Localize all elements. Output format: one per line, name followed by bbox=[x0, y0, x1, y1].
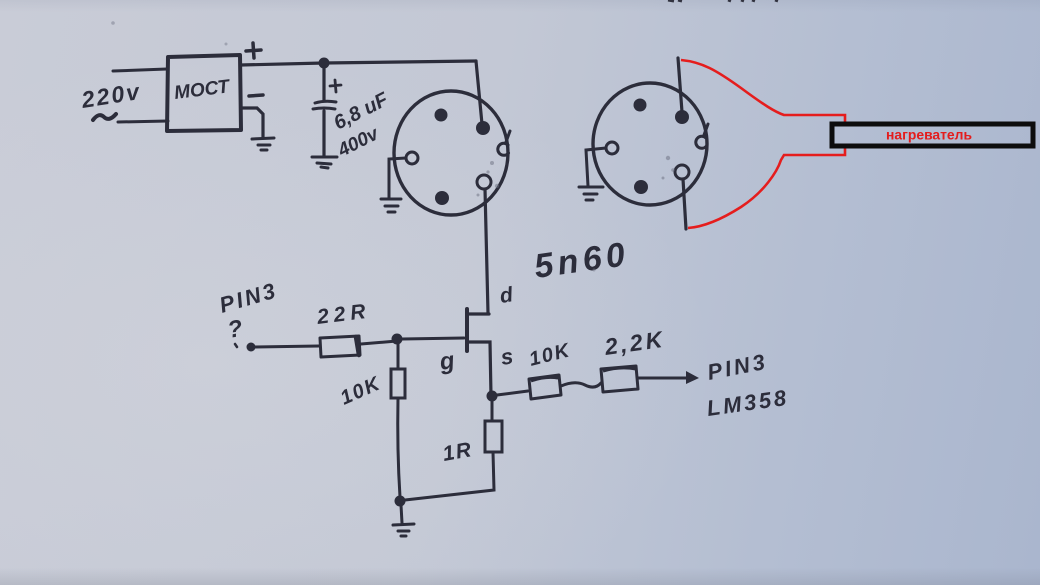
label PIN3 (input) bbox=[216, 277, 280, 317]
top edge stray marks bbox=[668, 0, 778, 1]
node: bus junction at capacitor bbox=[319, 58, 330, 69]
node: input terminal dot bbox=[247, 343, 256, 352]
wire: input to 22R bbox=[255, 346, 319, 347]
capacitor C1 polarity + bbox=[330, 80, 341, 92]
pin label g bbox=[437, 347, 457, 376]
svg-text:22R: 22R bbox=[315, 300, 372, 329]
label LM358 bbox=[705, 385, 790, 421]
minus terminal of bridge bbox=[249, 95, 263, 96]
label PIN3 (output) bbox=[705, 349, 770, 385]
wire: bridge + output bus to the right bbox=[241, 61, 476, 65]
AC symbol ~ bbox=[93, 114, 116, 120]
node: source junction bbox=[487, 391, 498, 402]
svg-text:?: ? bbox=[226, 315, 245, 344]
socket B pin right (c-shaped) bbox=[696, 124, 708, 148]
wire: 1R top to source node bbox=[491, 400, 494, 421]
svg-text:6,8 uF: 6,8 uF bbox=[330, 88, 392, 134]
pin label d bbox=[498, 283, 515, 308]
socket A pin top-left (filled) bbox=[435, 109, 448, 122]
wire: 22R to gate node bbox=[361, 341, 397, 344]
transistor Q1 drain bend bbox=[469, 312, 489, 315]
ground: bridge minus bbox=[252, 138, 274, 150]
ground: capacitor bbox=[312, 157, 337, 168]
transistor Q1 channel bar bbox=[465, 309, 469, 351]
red lead upper to heater bbox=[681, 60, 845, 123]
connector socket A outline bbox=[394, 91, 508, 215]
socket B pin top (filled) bbox=[634, 99, 647, 112]
wire: socket B left pin to ground bbox=[586, 148, 606, 186]
svg-text:s: s bbox=[499, 343, 515, 370]
node: gate junction bbox=[392, 334, 403, 345]
wire: ground node to 1R bottom bbox=[405, 452, 494, 500]
resistor 22R body bbox=[320, 336, 360, 357]
heater box bbox=[832, 124, 1033, 146]
socket A pin bottom (filled) bbox=[435, 191, 449, 205]
wire: gate node to gate bbox=[402, 338, 464, 339]
wire: bridge - output to ground bbox=[241, 108, 263, 137]
wire: 10K down to ground node bbox=[398, 398, 400, 497]
svg-text:1R: 1R bbox=[441, 438, 474, 466]
svg-text:МОСТ: МОСТ bbox=[173, 76, 232, 104]
value label 2,2K bbox=[602, 326, 667, 360]
svg-text:LM358: LM358 bbox=[705, 385, 790, 421]
wire: 220V line bottom bbox=[118, 121, 168, 122]
value label 10K (output) bbox=[527, 339, 573, 371]
value label 400V bbox=[334, 123, 383, 162]
wire: 2,2K to LM358 arrow bbox=[638, 371, 699, 384]
socket B pin bottom (filled) bbox=[634, 180, 648, 194]
socket A pin top-right (filled, to + bus) bbox=[476, 121, 490, 135]
label 220V bbox=[79, 78, 143, 113]
wire: socket A drain wire down to MOSFET bbox=[485, 189, 488, 313]
socket A pin bottom-right (open, to drain) bbox=[477, 175, 491, 189]
wire: bus corner down into socket A pin bbox=[476, 61, 482, 124]
red lead lower to heater bbox=[688, 147, 845, 228]
value label 6,8 uF bbox=[330, 88, 392, 134]
capacitor C1 top lead bbox=[322, 67, 325, 100]
ground: socket B bbox=[579, 187, 603, 200]
value label 1R bbox=[441, 438, 474, 466]
wire: 10K to 2,2K wavy bbox=[561, 383, 601, 387]
plus terminal of bridge bbox=[246, 43, 261, 58]
ground: main bbox=[393, 505, 414, 536]
socket B pin left (open) bbox=[606, 142, 618, 154]
svg-text:PIN3: PIN3 bbox=[216, 277, 280, 317]
capacitor C1 bottom lead bbox=[322, 111, 325, 156]
svg-text:5n60: 5n60 bbox=[532, 235, 632, 286]
wire: socket B bottom pin down bbox=[683, 179, 686, 229]
value label 22R bbox=[315, 300, 372, 329]
svg-text:220v: 220v bbox=[79, 78, 143, 113]
socket B pin bottom-right (open) bbox=[675, 165, 689, 179]
resistor 2,2K body bbox=[601, 366, 638, 392]
svg-text:PIN3: PIN3 bbox=[705, 349, 770, 385]
svg-text:10K: 10K bbox=[527, 339, 573, 371]
wire: socket A left pin to ground bbox=[389, 158, 406, 198]
label 5n60 bbox=[532, 235, 632, 286]
svg-text:d: d bbox=[498, 283, 515, 308]
connector socket B outline bbox=[593, 83, 707, 205]
node: ground junction bbox=[395, 496, 406, 507]
svg-text:10K: 10K bbox=[337, 372, 384, 409]
resistor 10K (gate) body bbox=[391, 369, 405, 398]
socket A pin right (c-shaped) bbox=[498, 131, 510, 155]
label МОСТ bbox=[173, 76, 232, 104]
value label 10K (gate) bbox=[337, 372, 384, 409]
wire: socket B top pin up bbox=[678, 58, 682, 112]
socket B pin top-right (filled) bbox=[675, 110, 689, 124]
socket A pin left (open) bbox=[406, 152, 418, 164]
resistor 10K (output) body bbox=[529, 375, 561, 399]
wire: 220V line top bbox=[113, 69, 167, 71]
label ? bbox=[226, 315, 245, 347]
svg-text:нагреватель: нагреватель bbox=[886, 127, 972, 143]
resistor 1R body bbox=[485, 421, 502, 452]
svg-text:2,2K: 2,2K bbox=[602, 326, 667, 360]
label нагреватель bbox=[886, 127, 972, 143]
capacitor C1 plates bbox=[313, 101, 336, 109]
svg-text:g: g bbox=[437, 347, 457, 376]
bridge rectifier МОСТ box bbox=[167, 55, 241, 131]
transistor Q1 source lead bbox=[468, 342, 491, 396]
wire: source node to 10K (output) bbox=[497, 391, 528, 395]
ground: socket A bbox=[381, 199, 401, 212]
wire: gate node down to 10K bbox=[397, 344, 400, 369]
pin label s bbox=[499, 343, 515, 370]
